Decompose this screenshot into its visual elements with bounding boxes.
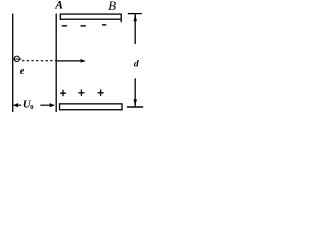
svg-text:A: A xyxy=(54,0,63,12)
svg-text:0: 0 xyxy=(30,104,33,111)
svg-text:B: B xyxy=(108,0,116,13)
svg-text:e: e xyxy=(20,66,25,77)
